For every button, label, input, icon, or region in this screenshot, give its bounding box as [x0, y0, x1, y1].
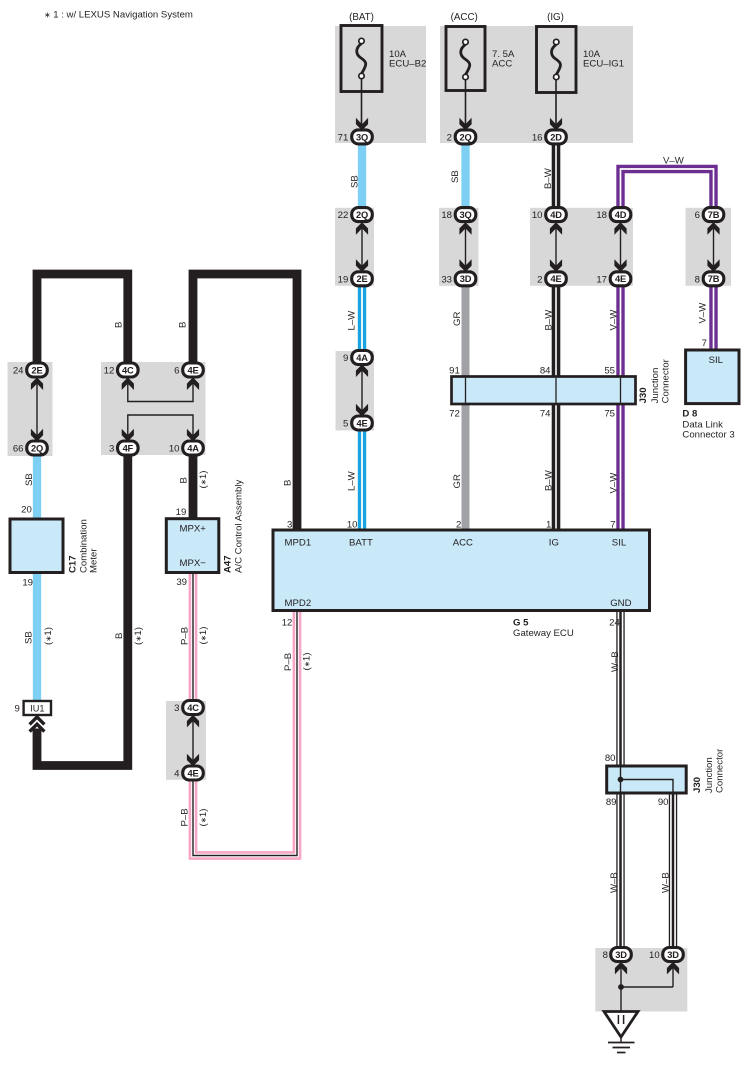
svg-text:Junction: Junction: [704, 757, 715, 793]
svg-text:90: 90: [658, 797, 669, 808]
svg-text:16: 16: [532, 132, 543, 143]
svg-text:Connector: Connector: [715, 748, 726, 793]
svg-text:V–W: V–W: [609, 472, 620, 494]
svg-text:91: 91: [449, 365, 460, 376]
svg-text:4D: 4D: [615, 210, 627, 220]
svg-text:4C: 4C: [187, 703, 199, 713]
svg-text:7B: 7B: [708, 274, 720, 284]
svg-text:39: 39: [176, 577, 187, 588]
svg-text:(∗1): (∗1): [198, 809, 209, 827]
svg-text:B–W: B–W: [543, 309, 554, 331]
svg-text:2E: 2E: [32, 365, 43, 375]
svg-text:(∗1): (∗1): [302, 653, 313, 671]
svg-text:(∗1): (∗1): [133, 627, 144, 645]
svg-text:7: 7: [610, 519, 615, 530]
svg-text:6: 6: [695, 210, 700, 221]
svg-text:C17: C17: [68, 555, 79, 573]
svg-text:∗ 1 : w/ LEXUS Navigation Syst: ∗ 1 : w/ LEXUS Navigation System: [44, 10, 193, 21]
svg-text:4A: 4A: [356, 353, 368, 363]
svg-text:ECU–B2: ECU–B2: [389, 59, 426, 70]
svg-text:A47: A47: [223, 555, 234, 573]
svg-text:IG: IG: [549, 538, 559, 549]
svg-text:SB: SB: [24, 631, 35, 644]
svg-text:4D: 4D: [550, 210, 562, 220]
svg-text:12: 12: [104, 366, 115, 377]
svg-text:3: 3: [174, 703, 179, 714]
svg-text:89: 89: [606, 797, 617, 808]
svg-text:71: 71: [338, 132, 349, 143]
svg-text:10: 10: [169, 444, 180, 455]
svg-text:SB: SB: [24, 473, 35, 486]
svg-text:19: 19: [338, 274, 349, 285]
svg-text:V–W: V–W: [663, 156, 685, 167]
svg-text:MPX+: MPX+: [180, 524, 207, 535]
svg-text:3D: 3D: [615, 950, 627, 960]
svg-text:B: B: [178, 322, 189, 328]
svg-text:4E: 4E: [551, 274, 562, 284]
svg-text:66: 66: [13, 444, 24, 455]
svg-text:18: 18: [441, 210, 452, 221]
svg-text:L–W: L–W: [347, 470, 358, 491]
svg-text:9: 9: [14, 704, 19, 715]
svg-text:2D: 2D: [550, 132, 562, 142]
svg-text:33: 33: [441, 274, 452, 285]
svg-text:(∗1): (∗1): [198, 471, 209, 489]
svg-text:3Q: 3Q: [356, 132, 368, 142]
svg-text:J30: J30: [692, 777, 703, 793]
svg-text:1: 1: [546, 519, 551, 530]
svg-text:2: 2: [447, 132, 452, 143]
svg-text:SIL: SIL: [612, 538, 627, 549]
svg-text:BATT: BATT: [349, 538, 373, 549]
svg-text:72: 72: [449, 409, 460, 420]
svg-text:MPD2: MPD2: [285, 598, 312, 609]
svg-text:W–B: W–B: [610, 651, 621, 672]
svg-text:V–W: V–W: [697, 302, 708, 324]
svg-text:(∗1): (∗1): [198, 627, 209, 645]
svg-text:MPD1: MPD1: [285, 538, 312, 549]
svg-text:G 5: G 5: [513, 617, 529, 628]
svg-text:2Q: 2Q: [356, 210, 368, 220]
svg-text:20: 20: [21, 505, 32, 516]
svg-text:80: 80: [605, 753, 616, 764]
svg-text:ECU–IG1: ECU–IG1: [583, 59, 624, 70]
svg-text:L–W: L–W: [347, 310, 358, 331]
svg-text:7B: 7B: [708, 210, 720, 220]
svg-text:4E: 4E: [615, 274, 626, 284]
svg-text:19: 19: [22, 578, 33, 589]
svg-text:10: 10: [649, 950, 660, 961]
svg-text:22: 22: [338, 210, 349, 221]
svg-text:D 8: D 8: [682, 408, 698, 419]
svg-text:24: 24: [13, 366, 24, 377]
svg-text:74: 74: [540, 409, 551, 420]
svg-text:W–B: W–B: [609, 872, 620, 893]
svg-text:2Q: 2Q: [459, 132, 471, 142]
svg-text:8: 8: [603, 950, 608, 961]
svg-text:(ACC): (ACC): [451, 12, 478, 23]
svg-text:GR: GR: [452, 312, 463, 326]
svg-text:B–W: B–W: [543, 469, 554, 491]
svg-text:B: B: [282, 480, 293, 486]
svg-text:(IG): (IG): [547, 12, 564, 23]
svg-text:SIL: SIL: [709, 355, 724, 366]
svg-text:3D: 3D: [460, 274, 472, 284]
svg-text:18: 18: [596, 210, 607, 221]
svg-text:4A: 4A: [187, 443, 199, 453]
svg-text:ACC: ACC: [453, 538, 473, 549]
svg-text:B–W: B–W: [543, 167, 554, 189]
svg-text:10: 10: [347, 519, 358, 530]
svg-text:10: 10: [532, 210, 543, 221]
svg-text:V–W: V–W: [609, 309, 620, 331]
svg-text:4E: 4E: [357, 418, 368, 428]
svg-text:3D: 3D: [667, 950, 679, 960]
svg-text:B: B: [114, 633, 125, 639]
svg-text:P–B: P–B: [283, 653, 294, 671]
svg-text:4E: 4E: [188, 365, 199, 375]
svg-text:SB: SB: [450, 170, 461, 183]
svg-text:ACC: ACC: [492, 59, 512, 70]
svg-text:(BAT): (BAT): [349, 12, 374, 23]
svg-text:W–B: W–B: [661, 872, 672, 893]
svg-text:SB: SB: [350, 175, 361, 188]
svg-text:24: 24: [609, 617, 620, 628]
svg-text:2: 2: [537, 274, 542, 285]
svg-text:4E: 4E: [188, 768, 199, 778]
svg-text:6: 6: [174, 366, 179, 377]
svg-text:3Q: 3Q: [459, 210, 471, 220]
svg-text:(∗1): (∗1): [43, 627, 54, 645]
svg-text:P–B: P–B: [180, 627, 191, 645]
svg-text:A/C Control Assembly: A/C Control Assembly: [234, 479, 245, 573]
svg-text:3: 3: [287, 519, 292, 530]
svg-text:2E: 2E: [357, 274, 368, 284]
svg-text:Meter: Meter: [89, 548, 100, 573]
svg-text:MPX−: MPX−: [180, 558, 207, 569]
svg-text:2: 2: [456, 519, 461, 530]
svg-text:4: 4: [174, 769, 180, 780]
svg-text:75: 75: [604, 409, 615, 420]
svg-text:84: 84: [540, 365, 551, 376]
svg-text:17: 17: [596, 274, 607, 285]
svg-text:GR: GR: [452, 474, 463, 488]
svg-text:4C: 4C: [122, 365, 134, 375]
svg-text:B: B: [114, 322, 125, 328]
svg-text:19: 19: [176, 507, 187, 518]
svg-text:8: 8: [695, 274, 700, 285]
svg-text:Connector 3: Connector 3: [682, 429, 734, 440]
svg-text:7: 7: [702, 338, 707, 349]
svg-text:3: 3: [109, 444, 114, 455]
svg-text:55: 55: [604, 365, 615, 376]
svg-text:P–B: P–B: [180, 808, 191, 826]
svg-text:2Q: 2Q: [31, 443, 43, 453]
svg-text:4F: 4F: [123, 443, 134, 453]
svg-text:Connector: Connector: [661, 358, 672, 403]
svg-text:Gateway ECU: Gateway ECU: [513, 628, 574, 639]
svg-text:B: B: [179, 477, 190, 483]
svg-text:IU1: IU1: [30, 704, 44, 714]
svg-text:J30: J30: [638, 387, 649, 403]
svg-text:5: 5: [343, 419, 348, 430]
svg-text:9: 9: [343, 353, 348, 364]
svg-text:Junction: Junction: [650, 368, 661, 404]
svg-text:GND: GND: [610, 598, 631, 609]
svg-text:12: 12: [282, 617, 293, 628]
